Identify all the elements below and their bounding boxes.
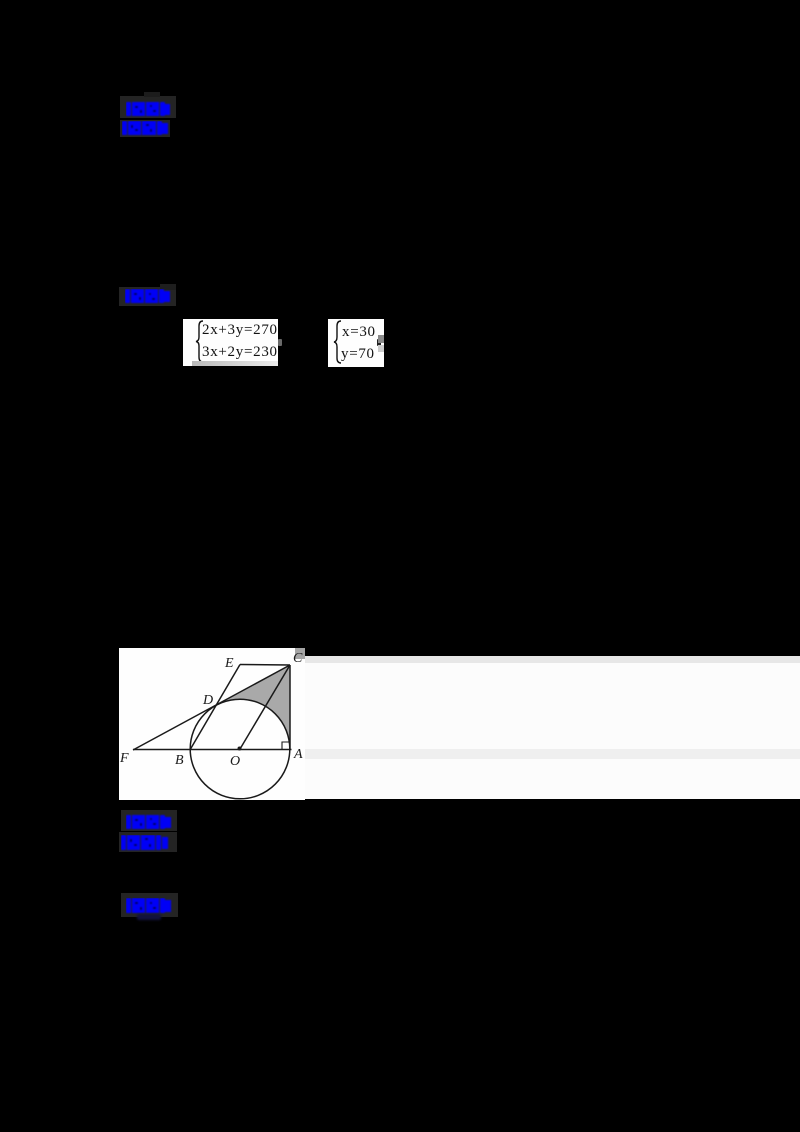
blue label [fenxi] line2 (122, 121, 169, 136)
right angle mark at A (282, 742, 290, 749)
halo behind label kaodian 2 (121, 810, 177, 831)
line FA horizontal (133, 749, 292, 751)
wide white band right of figure (304, 656, 800, 799)
halo behind label fenxi 2 (119, 832, 177, 852)
line CO (240, 665, 290, 749)
grey jpeg square at figure top right (295, 648, 305, 659)
faint dark blue smudge under jieda 2 (137, 914, 161, 920)
comma after box 1 (278, 339, 282, 346)
shaded segment region between tangents DC, CA and arc (213, 665, 290, 749)
line BE chord through D (190, 665, 240, 750)
halo behind label fenxi 1 (120, 120, 170, 137)
left brace of system 1 (194, 320, 204, 363)
equation image box 2: result x=30 / y=70 (328, 319, 384, 367)
center dot O (238, 747, 242, 751)
halo behind label jieda 2 (121, 893, 178, 917)
halo behind label jieda 1 (119, 287, 176, 306)
halo behind label kaodian 1 (120, 96, 176, 118)
svg-text:C: C (293, 651, 303, 666)
equation image box 1: system 2x+3y=270 / 3x+2y=230 (183, 319, 278, 366)
geometry figure image (119, 648, 305, 800)
grey jpeg strip bottom of box 1 (192, 361, 278, 366)
vertex labels (119, 651, 303, 769)
line FC tangent through D (133, 665, 290, 750)
blue label [fenxi] section2 (121, 835, 169, 851)
result line 2 (341, 346, 375, 363)
blue label [kaodian] section2 (126, 814, 172, 830)
svg-text:B: B (175, 753, 184, 768)
equation line 1 (202, 322, 278, 339)
grey artifact blocks at right edge of box 2 (378, 335, 384, 343)
circle O (190, 699, 290, 799)
equation line 2 (202, 344, 278, 361)
blue label [jieda] section2 (126, 898, 172, 914)
grey strip top of band (304, 656, 800, 663)
svg-text:D: D (202, 693, 213, 708)
grey strip mid band (304, 749, 800, 759)
comma inside box 2 (377, 339, 381, 346)
blue label [kaodian] line1 (126, 101, 171, 117)
svg-text:E: E (224, 656, 234, 671)
svg-text:A: A (293, 747, 303, 762)
blue label [jieda] (125, 289, 171, 304)
result line 1 (342, 324, 376, 341)
line EC top (240, 664, 290, 667)
svg-text:F: F (119, 751, 129, 766)
line CA vertical tangent (289, 665, 291, 750)
svg-text:O: O (230, 754, 240, 769)
left brace of system 2 (332, 320, 342, 364)
